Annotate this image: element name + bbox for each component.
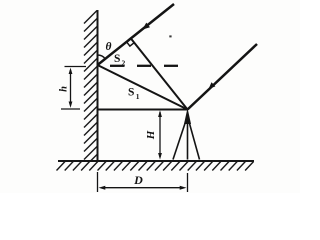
svg-text:S: S xyxy=(114,53,120,65)
ray 2 (upper right ray down to apex P) xyxy=(188,44,258,110)
angle arc theta at O xyxy=(98,55,106,59)
arrowhead on ray 2 xyxy=(209,82,216,89)
svg-text:1: 1 xyxy=(136,92,140,101)
perpendicular segment S2 (from foot F to apex P) xyxy=(131,38,188,109)
H dimension xyxy=(159,112,161,157)
ground xyxy=(58,160,254,162)
wall xyxy=(97,10,99,161)
svg-text:S: S xyxy=(128,87,134,99)
instrument (filled triangle) at apex P xyxy=(184,108,191,124)
svg-text:H: H xyxy=(145,130,157,140)
svg-text:θ: θ xyxy=(106,41,112,53)
svg-text:2: 2 xyxy=(122,59,126,68)
svg-text:D: D xyxy=(133,173,143,187)
dashed horizontal reference line at O level xyxy=(110,65,178,67)
D dimension xyxy=(98,172,188,192)
segment S1 (O to apex P) xyxy=(98,65,188,110)
ground hatching xyxy=(57,162,254,171)
arrowhead on ray 1 xyxy=(142,23,150,30)
scan speck xyxy=(169,35,171,37)
wall hatching xyxy=(84,11,97,168)
svg-text:h: h xyxy=(59,86,70,92)
tripod legs xyxy=(173,121,200,160)
incident ray 1 (top ray to wall point O) xyxy=(98,4,175,65)
right-angle square at F xyxy=(127,42,135,46)
h dimension xyxy=(61,67,86,110)
horizontal line wall to apex at P level xyxy=(98,109,188,111)
